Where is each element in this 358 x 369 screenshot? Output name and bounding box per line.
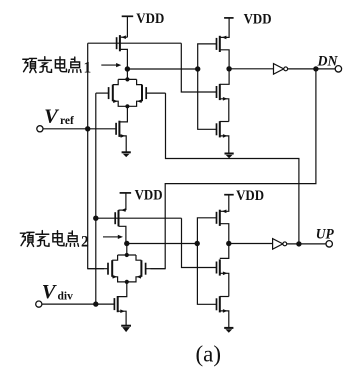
svg-text:DN: DN	[317, 53, 339, 69]
svg-text:div: div	[58, 291, 74, 303]
svg-text:VDD: VDD	[136, 11, 164, 27]
svg-text:VDD: VDD	[135, 187, 163, 203]
svg-text:ref: ref	[60, 115, 74, 127]
svg-text:2: 2	[81, 234, 89, 251]
svg-text:V: V	[42, 281, 58, 303]
svg-text:UP: UP	[316, 226, 335, 242]
svg-text:V: V	[44, 106, 60, 128]
svg-text:VDD: VDD	[244, 11, 272, 27]
svg-text:1: 1	[84, 60, 92, 77]
svg-text:(a): (a)	[196, 342, 222, 367]
svg-text:VDD: VDD	[236, 188, 264, 204]
